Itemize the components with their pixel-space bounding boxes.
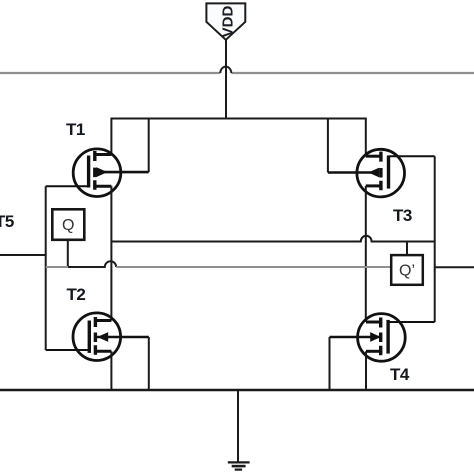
wire: rail to T3 bulk column	[327, 118, 329, 173]
wire: left gate column	[45, 186, 47, 350]
wire: rail to T1 bulk column	[148, 118, 150, 173]
transistor T4 (NMOS, mirrored)	[330, 314, 435, 362]
wire: cross wire node Q to right gate column (black, hop over Q' column)	[111, 236, 435, 242]
svg-text:T3: T3	[393, 206, 412, 225]
transistor T1 (PMOS)	[46, 149, 149, 197]
wire: top horizontal gray line	[0, 72, 474, 74]
ground symbol	[228, 390, 250, 470]
wire: Q' box top stub	[406, 242, 408, 256]
node box Q'	[391, 255, 423, 285]
transistor T3 (PMOS, mirrored)	[328, 149, 435, 197]
svg-text:Q’: Q’	[399, 263, 415, 280]
svg-text:T4: T4	[390, 365, 410, 384]
node column Q' (T3 drain to T4 drain)	[365, 186, 367, 322]
wire: VDD drop to top rail	[225, 40, 227, 119]
wire: rail to T3 source column	[365, 118, 367, 157]
wire: T4 bulk down to ground rail	[329, 337, 331, 390]
wire: cross wire to gates of T1/T2 (gray)	[46, 266, 68, 268]
wire: Q box stub	[67, 240, 69, 267]
svg-text:T5: T5	[0, 212, 14, 231]
svg-text:T2: T2	[67, 285, 86, 304]
wire: T5 input from left edge	[0, 254, 46, 256]
wire: T2 source to ground rail	[110, 351, 112, 390]
wire hop over VDD wire	[220, 67, 231, 73]
wire: right gate column	[434, 156, 436, 322]
wire: rail to T1 source column	[110, 118, 112, 155]
wire: T2 bulk down to ground rail	[148, 337, 150, 390]
wire: bottom ground rail	[0, 389, 474, 392]
power VDD symbol (pentagon)	[206, 3, 245, 39]
wire: top rail	[111, 118, 365, 120]
node column Q (T1 drain to T2 drain)	[110, 186, 112, 320]
node box Q	[52, 209, 84, 240]
svg-text:VDD: VDD	[219, 5, 236, 37]
wire: Q' output to right edge	[435, 266, 474, 268]
svg-text:Q: Q	[62, 217, 74, 234]
svg-text:T1: T1	[66, 120, 85, 139]
wire: T4 source to ground rail	[365, 351, 367, 390]
transistor T2 (NMOS)	[46, 313, 149, 361]
